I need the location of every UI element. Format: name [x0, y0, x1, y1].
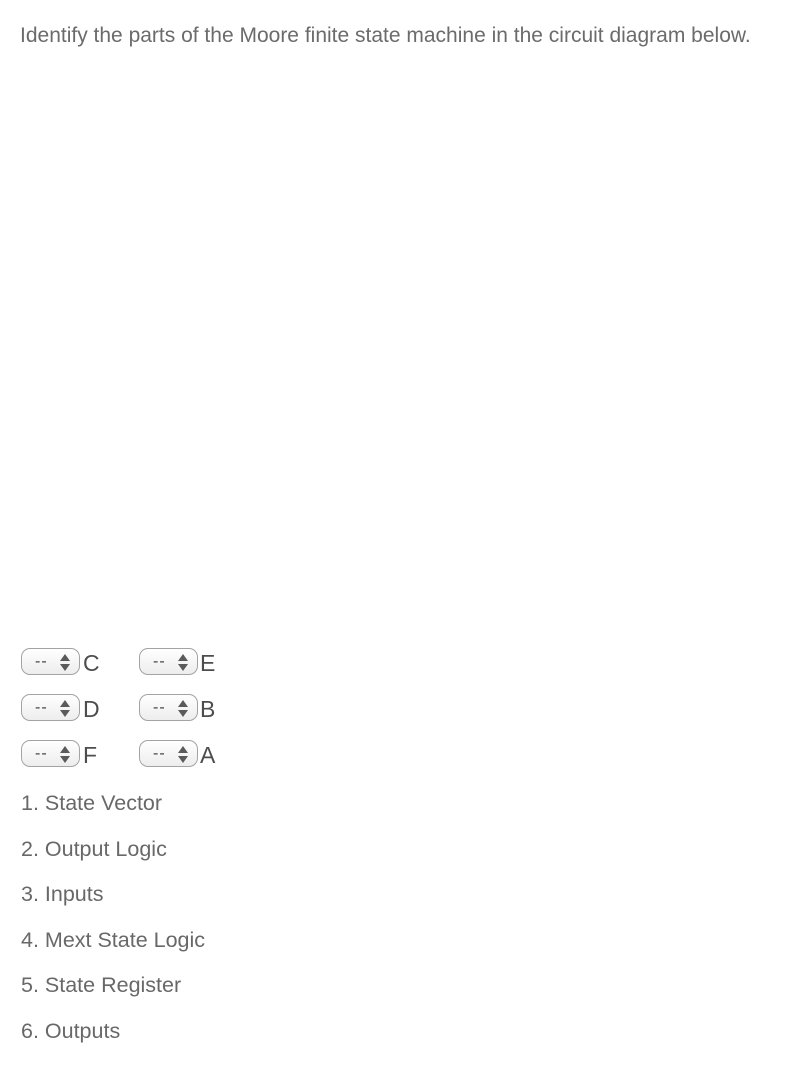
- select row 1: [21, 648, 80, 675]
- select row 3: [21, 740, 80, 767]
- select row 2: [21, 694, 80, 721]
